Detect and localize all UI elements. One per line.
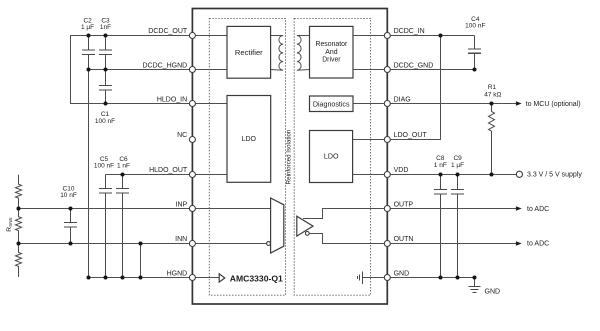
- capacitor C8: [434, 155, 447, 277]
- pin OUTN: [384, 236, 413, 246]
- pin LDO_OUT: [384, 132, 427, 142]
- sigma-delta modulator: [271, 198, 284, 253]
- pin HLDO_OUT: [149, 167, 195, 178]
- output amplifier triangle: [297, 216, 313, 236]
- svg-text:1 nF: 1 nF: [434, 162, 447, 169]
- wire DCDC_GND pin to resonator: [353, 69, 387, 71]
- capacitor C9: [451, 155, 464, 277]
- wire OUTP from amplifier: [303, 209, 387, 219]
- svg-text:10 nF: 10 nF: [60, 192, 77, 199]
- svg-text:R1: R1: [488, 84, 497, 91]
- svg-text:AMC3330-Q1: AMC3330-Q1: [230, 274, 283, 284]
- label Reinforced Isolation: [285, 129, 292, 184]
- svg-text:100 nF: 100 nF: [95, 118, 115, 125]
- pin DCDC_HGND: [142, 63, 195, 73]
- capacitor C1: [95, 70, 115, 125]
- transformer winding high side: [271, 36, 284, 71]
- svg-text:to ADC: to ADC: [527, 241, 549, 248]
- pin NC: [177, 132, 195, 142]
- wire DCDC_HGND pin to Rectifier: [192, 69, 228, 71]
- svg-text:DIAG: DIAG: [394, 97, 411, 104]
- wire INP rail: [19, 208, 193, 210]
- svg-text:1 µF: 1 µF: [81, 24, 94, 31]
- resistor RSNS: [6, 209, 22, 244]
- wire HLDO_OUT rail: [106, 174, 193, 176]
- svg-text:to ADC: to ADC: [527, 206, 549, 213]
- svg-text:HLDO_OUT: HLDO_OUT: [149, 167, 188, 174]
- svg-text:GND: GND: [394, 271, 410, 278]
- wire OUTN from amplifier bubble: [309, 234, 387, 244]
- svg-text:Diagnostics: Diagnostics: [313, 100, 350, 108]
- pin VDD: [384, 167, 408, 178]
- svg-text:100 nF: 100 nF: [465, 23, 485, 30]
- svg-text:DCDC_OUT: DCDC_OUT: [148, 28, 188, 35]
- wire VDD to supply: [387, 174, 516, 176]
- resistor divider lower: [16, 244, 22, 278]
- device marker triangle: [219, 274, 225, 282]
- pin INN: [175, 236, 195, 246]
- junction dots left: [17, 34, 143, 280]
- op-amp U1 outer package AMC3330-Q1: [192, 9, 387, 305]
- svg-text:Reinforced Isolation: Reinforced Isolation: [285, 129, 292, 184]
- wire DCDC_GND to C4: [387, 69, 474, 71]
- svg-text:1 µF: 1 µF: [451, 162, 464, 169]
- svg-text:LDO: LDO: [324, 152, 339, 160]
- pin INP: [176, 202, 196, 212]
- LDO block high side: [227, 96, 271, 183]
- wire INN to HGND link: [140, 244, 142, 278]
- supply terminal circle: [516, 171, 582, 178]
- svg-text:And: And: [325, 49, 337, 56]
- pin HLDO_IN: [157, 97, 196, 107]
- ground symbol GND: [469, 278, 500, 296]
- svg-text:OUTN: OUTN: [394, 236, 414, 243]
- svg-text:NC: NC: [177, 132, 187, 139]
- modulator inverting input bubble: [267, 242, 271, 246]
- capacitor C6: [116, 156, 130, 278]
- wire DCDC_HGND down to HGND rail: [88, 70, 90, 278]
- wire OUTP to ADC: [387, 206, 549, 213]
- capacitor C10: [60, 186, 77, 244]
- wire INN pin to modulator bubble: [192, 243, 266, 245]
- svg-text:INN: INN: [175, 236, 187, 243]
- wire HLDO_OUT pin to LDO: [192, 174, 227, 176]
- wire DCDC_OUT pin to Rectifier: [192, 35, 228, 37]
- wire DCDC_IN pin to resonator: [353, 35, 387, 37]
- svg-text:100 nF: 100 nF: [94, 163, 114, 170]
- output amplifier bubble: [305, 232, 309, 236]
- wire DIAG to MCU: [387, 103, 516, 105]
- wire INP pin to modulator: [192, 208, 270, 210]
- svg-text:Driver: Driver: [322, 57, 341, 64]
- capacitor C5: [94, 156, 114, 278]
- svg-text:HGND: HGND: [167, 271, 188, 278]
- svg-text:Resonator: Resonator: [316, 41, 348, 48]
- wire DCDC_HGND left to C2: [89, 69, 193, 71]
- svg-text:RSNS: RSNS: [6, 217, 13, 231]
- pin HGND: [167, 271, 196, 281]
- transformer winding low side: [297, 36, 310, 71]
- pin DCDC_IN: [384, 28, 424, 39]
- capacitor C2: [81, 17, 95, 69]
- wire GND rail: [387, 277, 474, 279]
- wire DIAG pin to diagnostics: [353, 103, 387, 105]
- diagnostics block: [310, 96, 354, 112]
- pin DCDC_OUT: [148, 28, 195, 39]
- pin DCDC_GND: [384, 63, 433, 73]
- resistor R1: [484, 84, 501, 174]
- svg-text:VDD: VDD: [394, 167, 409, 174]
- wire OUTN to ADC: [387, 241, 549, 248]
- svg-text:to MCU (optional): to MCU (optional): [526, 101, 581, 108]
- svg-text:LDO: LDO: [242, 136, 257, 143]
- svg-text:Rectifier: Rectifier: [235, 48, 263, 57]
- pin OUTP: [384, 202, 413, 212]
- wire VDD pin to LDO: [353, 174, 388, 176]
- svg-text:OUTP: OUTP: [394, 202, 414, 209]
- resonator and driver block: [310, 26, 354, 78]
- resistor divider upper: [16, 175, 22, 209]
- junction dots right: [439, 34, 494, 280]
- wire LDO_OUT to DCDC_IN link: [387, 36, 440, 140]
- wire HGND pin to device marker: [192, 277, 219, 279]
- svg-text:1 nF: 1 nF: [117, 163, 130, 170]
- arrow to MCU: [516, 101, 581, 108]
- wire HGND rail: [89, 277, 193, 279]
- svg-text:HLDO_IN: HLDO_IN: [157, 97, 187, 104]
- svg-text:LDO_OUT: LDO_OUT: [394, 132, 428, 139]
- pin DIAG: [384, 97, 410, 107]
- svg-text:DCDC_HGND: DCDC_HGND: [142, 63, 187, 70]
- high-side isolation barrier dashed box: [209, 18, 285, 295]
- capacitor C3: [99, 17, 112, 69]
- wire DCDC_OUT to C2 C3 and wrap to HLDO_IN: [71, 36, 193, 104]
- capacitor C4: [465, 16, 485, 70]
- wire LDO_OUT pin to LDO: [353, 139, 388, 141]
- internal ground symbol: [358, 272, 363, 285]
- svg-text:3.3 V / 5 V supply: 3.3 V / 5 V supply: [527, 172, 582, 179]
- wire HLDO_IN pin to LDO: [192, 103, 227, 105]
- rectifier block: [227, 26, 271, 78]
- pin GND: [384, 271, 409, 281]
- svg-text:47 kΩ: 47 kΩ: [484, 92, 501, 99]
- LDO block low side: [310, 131, 353, 183]
- svg-text:1nF: 1nF: [100, 24, 111, 31]
- low-side isolation barrier dashed box: [294, 18, 370, 295]
- svg-text:GND: GND: [485, 288, 501, 295]
- svg-text:DCDC_GND: DCDC_GND: [394, 63, 434, 70]
- svg-text:INP: INP: [176, 202, 188, 209]
- label AMC3330-Q1: [230, 274, 283, 284]
- wire GND pin to internal ground: [363, 277, 388, 279]
- svg-text:DCDC_IN: DCDC_IN: [394, 28, 425, 35]
- wire INN rail: [19, 243, 193, 245]
- wire DCDC_IN to C4: [387, 35, 474, 37]
